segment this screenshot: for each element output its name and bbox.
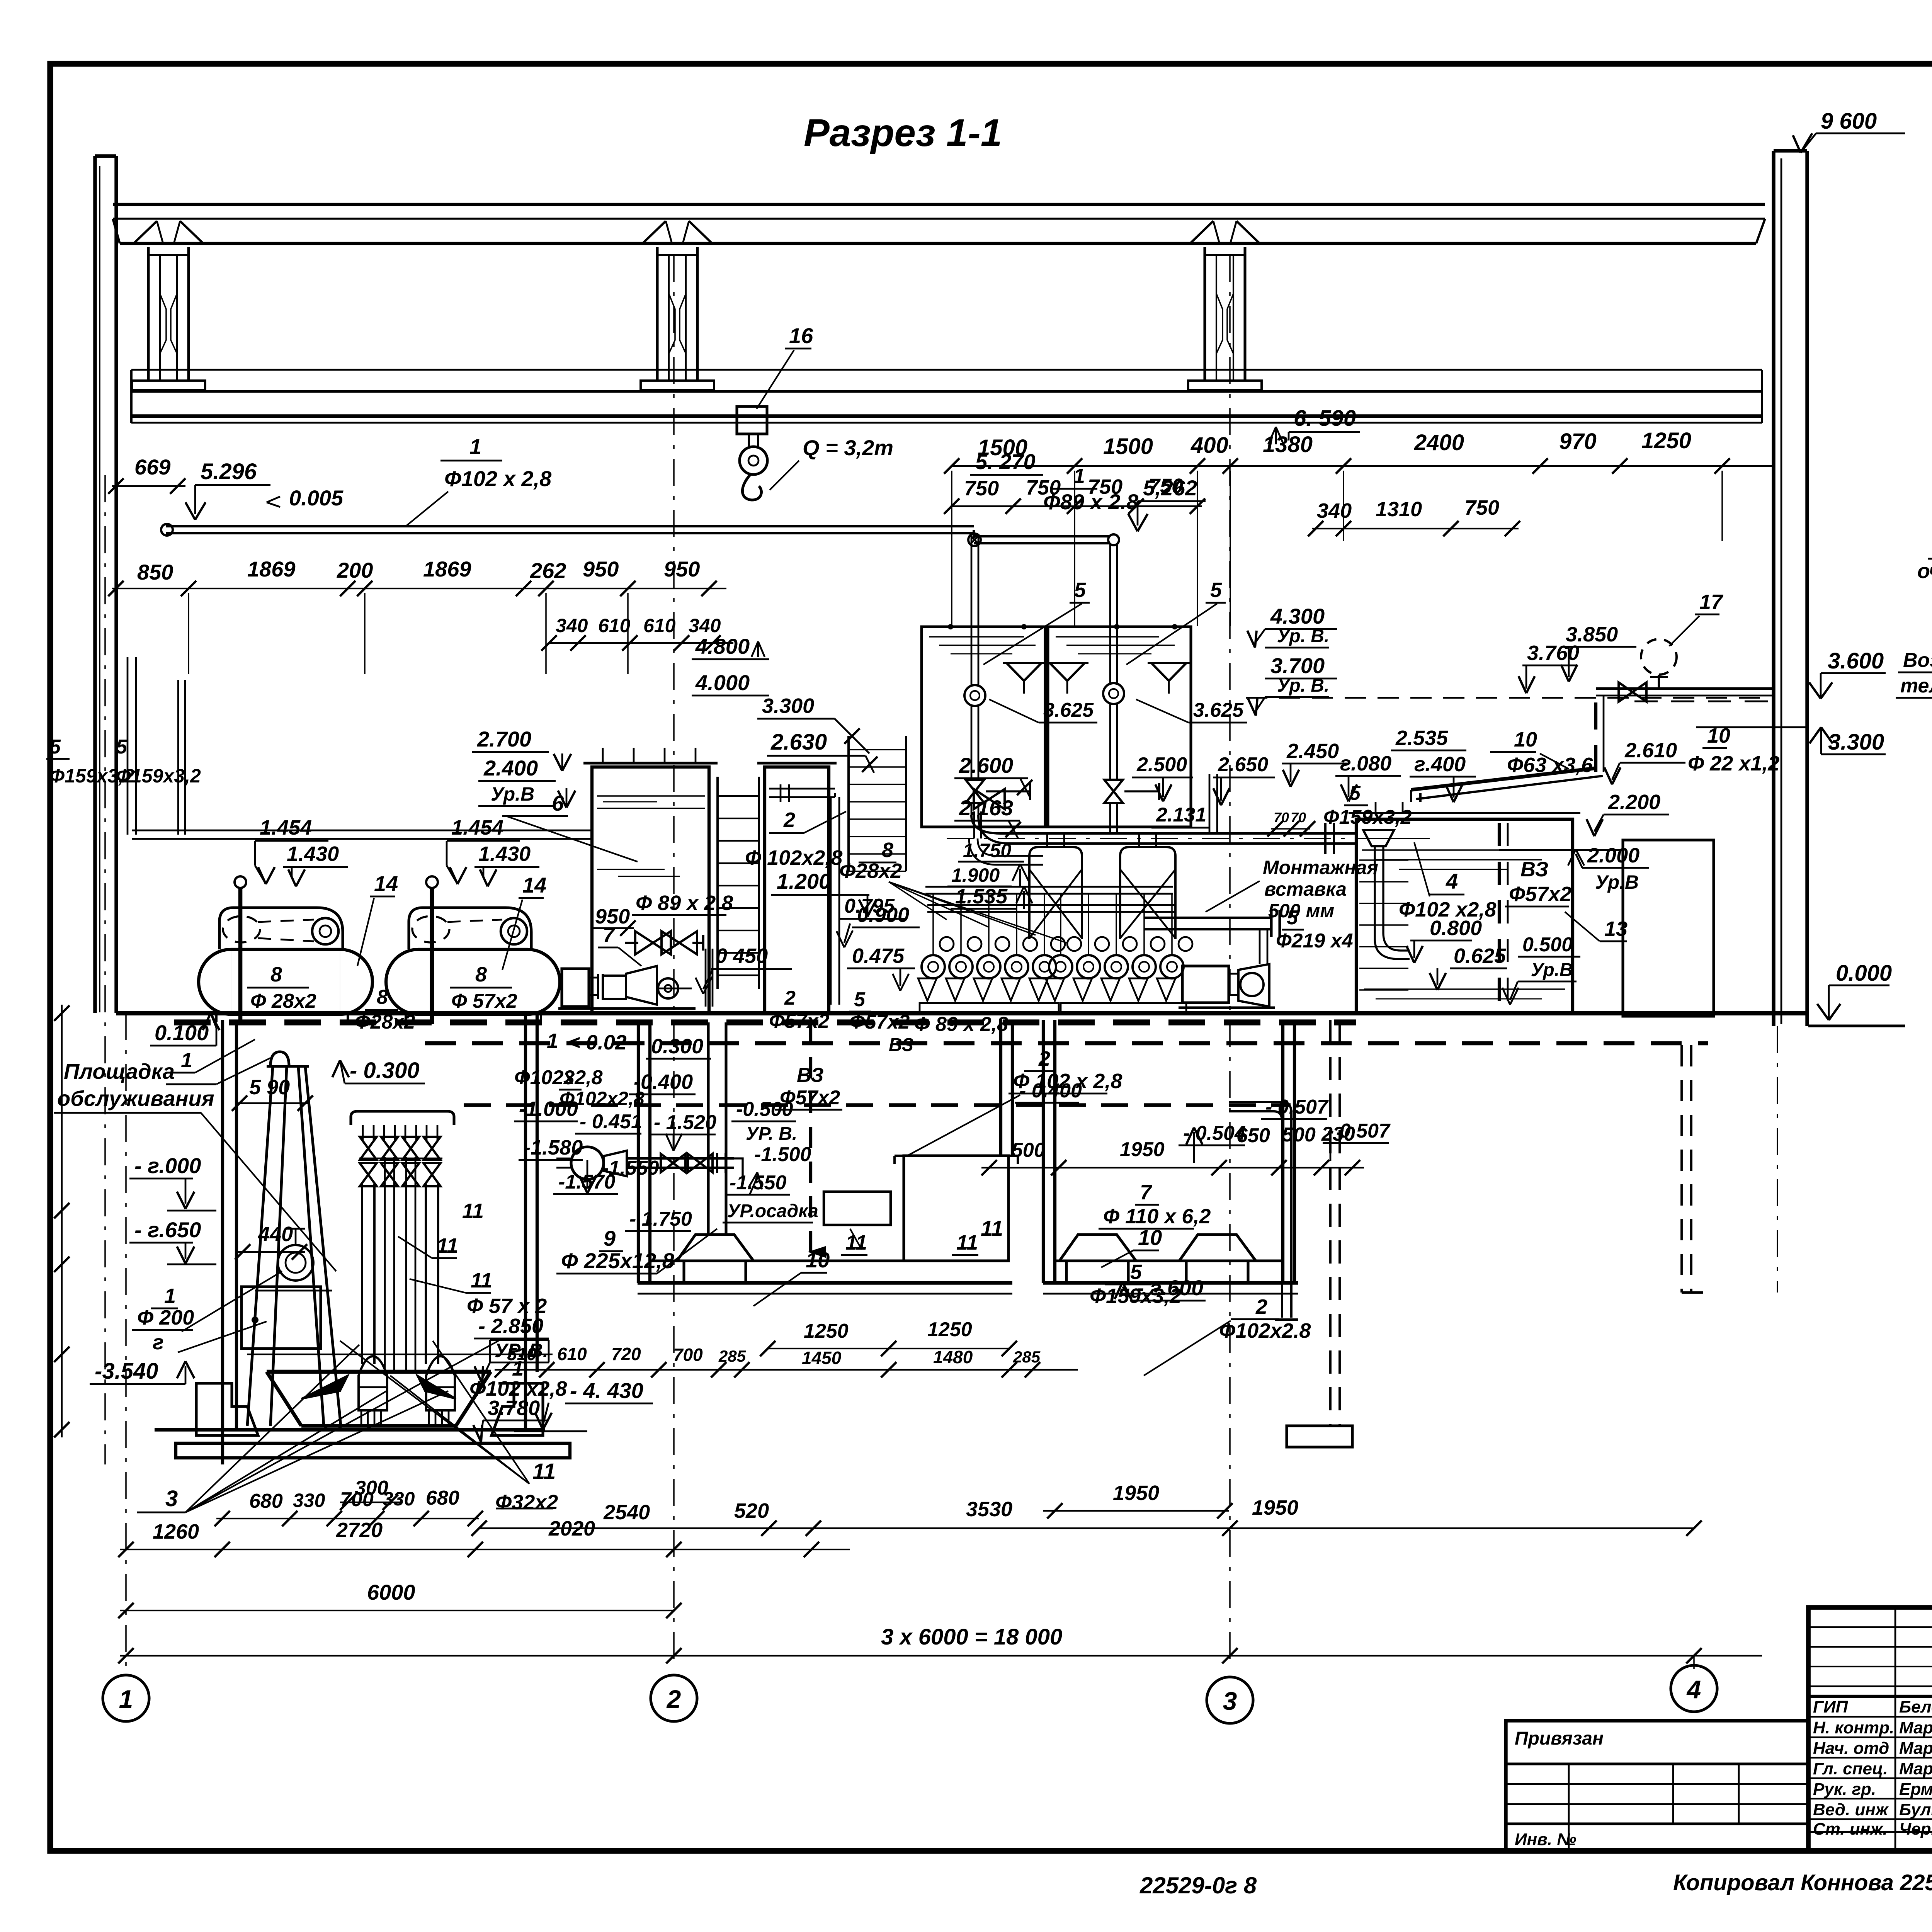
open tank A hydrocyclone bbox=[922, 627, 1045, 827]
extension lines below right dim row bbox=[951, 471, 952, 626]
svg-text:Чертков: Чертков bbox=[1899, 1820, 1932, 1838]
svg-text:285: 285 bbox=[718, 1347, 746, 1365]
svg-text:8: 8 bbox=[475, 963, 487, 986]
svg-text:1250: 1250 bbox=[804, 1320, 849, 1342]
sub dim row 340-1310-750 bbox=[1312, 528, 1519, 529]
svg-text:0.005: 0.005 bbox=[289, 486, 344, 510]
svg-text:Ур.В: Ур.В bbox=[491, 783, 534, 805]
svg-text:1250: 1250 bbox=[1641, 428, 1691, 453]
center pit walls bbox=[637, 1020, 640, 1283]
svg-text:1: 1 bbox=[469, 434, 481, 459]
svg-text:3.300: 3.300 bbox=[1828, 730, 1884, 755]
svg-text:Марионков: Марионков bbox=[1899, 1759, 1932, 1778]
elevation 3.600 bbox=[1809, 682, 1821, 699]
sludge hopper bbox=[267, 1370, 491, 1374]
grid bubble 3 bbox=[1207, 1677, 1253, 1723]
svg-text:0.300: 0.300 bbox=[651, 1035, 703, 1058]
svg-text:400: 400 bbox=[1190, 433, 1228, 458]
svg-text:Ф159х3,2: Ф159х3,2 bbox=[116, 765, 201, 787]
svg-text:2.650: 2.650 bbox=[1218, 753, 1268, 776]
floor right of column bbox=[1808, 1024, 1905, 1027]
svg-text:- 4. 430: - 4. 430 bbox=[570, 1378, 643, 1403]
ladder column left of tank A bbox=[847, 736, 850, 871]
svg-text:3.625: 3.625 bbox=[1193, 699, 1244, 721]
grid bubble 4 bbox=[1671, 1665, 1717, 1712]
svg-text:10: 10 bbox=[1514, 728, 1537, 751]
svg-text:Ф102х2,8: Ф102х2,8 bbox=[560, 1088, 645, 1109]
elevation 0.000 right bbox=[1817, 1004, 1829, 1020]
svg-text:2: 2 bbox=[783, 808, 795, 832]
svg-text:0.100: 0.100 bbox=[155, 1020, 209, 1045]
dashed drop VZ center bbox=[809, 1022, 812, 1252]
svg-text:11: 11 bbox=[437, 1234, 458, 1257]
svg-text:330: 330 bbox=[293, 1490, 325, 1511]
svg-text:2.600: 2.600 bbox=[959, 753, 1013, 777]
level dash line 3.700 bbox=[1246, 697, 1762, 699]
tank 11 box bbox=[904, 1156, 1009, 1261]
f89 distribution header bbox=[927, 904, 1175, 906]
riser 1 valve with spindle bbox=[966, 780, 984, 803]
svg-text:700: 700 bbox=[340, 1488, 374, 1511]
overflow funnels on tank tops bbox=[1007, 663, 1024, 681]
flange pairs on header bbox=[1324, 823, 1327, 854]
svg-text:ГИП: ГИП bbox=[1813, 1697, 1849, 1716]
svg-text:Ф 22 х1,2: Ф 22 х1,2 bbox=[1688, 752, 1779, 775]
svg-text:- г.000: - г.000 bbox=[134, 1153, 201, 1178]
pump in center pit bbox=[571, 1147, 604, 1179]
pipe 1 f102x2.8 overhead bbox=[166, 525, 974, 527]
svg-text:4: 4 bbox=[1686, 1675, 1701, 1704]
svg-text:Белоус: Белоус bbox=[1899, 1697, 1932, 1716]
svg-text:0 450: 0 450 bbox=[716, 944, 768, 968]
svg-text:Ф 110 х 6,2: Ф 110 х 6,2 bbox=[1103, 1205, 1211, 1228]
svg-text:1.430: 1.430 bbox=[287, 842, 339, 866]
svg-text:Ф 28х2: Ф 28х2 bbox=[250, 990, 316, 1012]
svg-text:г.400: г.400 bbox=[1414, 753, 1466, 776]
floor line 0.000 bbox=[116, 1011, 1808, 1015]
crane runway posts bbox=[147, 247, 150, 381]
dim row 500 1950 650 500 230 bbox=[981, 1167, 1364, 1168]
svg-text:4.000: 4.000 bbox=[695, 670, 750, 695]
svg-text:Ф 57 х 2: Ф 57 х 2 bbox=[467, 1294, 547, 1318]
roof slab top chords bbox=[113, 203, 1765, 206]
svg-text:Ф 57х2: Ф 57х2 bbox=[451, 990, 517, 1012]
svg-text:- г.600: - г.600 bbox=[1137, 1276, 1203, 1300]
svg-text:1.454: 1.454 bbox=[260, 816, 312, 839]
risers along wall bbox=[127, 657, 129, 835]
svg-text:230: 230 bbox=[1321, 1123, 1355, 1145]
svg-text:2: 2 bbox=[666, 1685, 681, 1713]
svg-text:950: 950 bbox=[583, 557, 619, 581]
svg-text:10: 10 bbox=[1707, 724, 1730, 747]
left pit walls bbox=[221, 1020, 224, 1464]
svg-text:850: 850 bbox=[137, 560, 173, 584]
dashed tank 13 outline bbox=[1499, 849, 1623, 851]
svg-text:3.300: 3.300 bbox=[762, 694, 814, 718]
dashed elbow bottom bbox=[1682, 1291, 1716, 1294]
svg-text:1380: 1380 bbox=[1263, 432, 1313, 457]
svg-text:1500: 1500 bbox=[1103, 434, 1153, 459]
svg-text:970: 970 bbox=[1559, 429, 1597, 454]
cylindrical tank 8a bbox=[231, 949, 340, 1014]
svg-text:11: 11 bbox=[981, 1216, 1003, 1240]
svg-text:г.080: г.080 bbox=[1340, 752, 1391, 775]
svg-text:500: 500 bbox=[1012, 1139, 1045, 1162]
svg-text:3.700: 3.700 bbox=[1270, 653, 1325, 678]
svg-text:Мартынов: Мартынов bbox=[1899, 1739, 1932, 1758]
svg-text:610: 610 bbox=[598, 615, 631, 636]
svg-text:Ур.В: Ур.В bbox=[1531, 960, 1573, 980]
hydrocyclone bank 2 bbox=[1049, 955, 1072, 978]
svg-text:750: 750 bbox=[1148, 474, 1183, 498]
svg-text:Вед. инж: Вед. инж bbox=[1813, 1800, 1889, 1819]
svg-text:- 0.507: - 0.507 bbox=[1265, 1096, 1329, 1118]
right column bbox=[1772, 151, 1775, 1026]
svg-text:285: 285 bbox=[1013, 1348, 1041, 1366]
grid bubble 2 bbox=[651, 1675, 697, 1721]
tank 6 flotator bbox=[592, 767, 709, 1013]
svg-text:очищаемой воды: очищаемой воды bbox=[1917, 560, 1932, 583]
svg-text:-1.500: -1.500 bbox=[754, 1143, 811, 1166]
svg-text:11: 11 bbox=[471, 1269, 492, 1292]
svg-text:Н. контр.: Н. контр. bbox=[1813, 1718, 1894, 1737]
svg-text:0.475: 0.475 bbox=[852, 944, 905, 968]
open tank B hydrocyclone bbox=[1048, 627, 1191, 827]
svg-text:720: 720 bbox=[611, 1344, 641, 1364]
svg-text:200: 200 bbox=[337, 558, 373, 582]
grid bubble 1 bbox=[103, 1675, 149, 1721]
svg-text:Площадка: Площадка bbox=[64, 1059, 175, 1083]
svg-text:обслуживания: обслуживания bbox=[57, 1086, 214, 1111]
riser 1 elbow to header bbox=[971, 815, 1001, 833]
svg-text:Ф 89 х 2,8: Ф 89 х 2,8 bbox=[914, 1013, 1008, 1036]
cylindrical tank 8b bbox=[386, 949, 560, 1014]
svg-text:6: 6 bbox=[552, 791, 564, 815]
conveyor housing 8b bbox=[409, 908, 531, 949]
svg-text:750: 750 bbox=[1088, 475, 1122, 498]
svg-text:950: 950 bbox=[664, 557, 700, 581]
svg-text:2.500: 2.500 bbox=[1136, 753, 1187, 776]
elevation 3.300 bbox=[1810, 727, 1821, 743]
svg-text:1950: 1950 bbox=[1113, 1481, 1159, 1505]
svg-text:2400: 2400 bbox=[1414, 430, 1464, 455]
pit bottom slab bbox=[155, 1428, 545, 1431]
hook pipe under floor bbox=[1229, 1101, 1282, 1103]
svg-text:УР. В.: УР. В. bbox=[746, 1124, 797, 1144]
left wall column bbox=[93, 156, 97, 1013]
svg-text:Ермакова: Ермакова bbox=[1899, 1780, 1932, 1799]
svg-text:3.625: 3.625 bbox=[1043, 699, 1094, 721]
svg-text:< 0.02: < 0.02 bbox=[568, 1031, 627, 1054]
dim row 510 610 720 700 285 1450 1480 285 bbox=[495, 1369, 1078, 1371]
svg-text:Ст. инж.: Ст. инж. bbox=[1813, 1820, 1888, 1838]
right pit footings bbox=[1060, 1235, 1136, 1261]
header pipe f159 horizontal bbox=[1001, 832, 1357, 835]
svg-text:2.200: 2.200 bbox=[1608, 791, 1660, 814]
long drop pipes bbox=[361, 1184, 363, 1364]
svg-text:3 х 6000 = 18 000: 3 х 6000 = 18 000 bbox=[881, 1624, 1062, 1650]
svg-text:0.000: 0.000 bbox=[1836, 961, 1892, 986]
svg-text:Q = 3,2т: Q = 3,2т bbox=[803, 435, 893, 460]
dim 3x6000 bbox=[120, 1655, 1762, 1656]
svg-text:Воздухораспредели-: Воздухораспредели- bbox=[1903, 649, 1932, 672]
svg-text:14: 14 bbox=[522, 873, 546, 897]
sub dim row 340-610 bbox=[549, 642, 733, 644]
svg-text:Разрез 1-1: Разрез 1-1 bbox=[804, 111, 1002, 155]
pump 2 unit bbox=[1182, 966, 1229, 1003]
svg-text:Рук. гр.: Рук. гр. bbox=[1813, 1780, 1876, 1799]
svg-text:5.296: 5.296 bbox=[201, 459, 257, 484]
wall axis dash-dot bbox=[104, 475, 106, 1464]
svg-text:Ф102х2,8: Ф102х2,8 bbox=[514, 1066, 603, 1089]
elevation 9.600 bbox=[1816, 133, 1905, 134]
svg-text:440: 440 bbox=[258, 1223, 293, 1246]
svg-text:УР.осадка: УР.осадка bbox=[727, 1201, 818, 1221]
svg-text:1480: 1480 bbox=[933, 1347, 973, 1367]
dim 669 bbox=[112, 485, 185, 487]
svg-text:1260: 1260 bbox=[153, 1520, 199, 1543]
dim 1950 mid bbox=[1043, 1510, 1229, 1512]
svg-text:Ф159х3,2: Ф159х3,2 bbox=[1323, 806, 1412, 828]
privyazan block bbox=[1506, 1721, 1808, 1851]
svg-text:750: 750 bbox=[1464, 496, 1499, 519]
svg-text:-0.500: -0.500 bbox=[736, 1098, 793, 1121]
svg-text:0.625: 0.625 bbox=[1454, 944, 1506, 968]
personnel table bbox=[1808, 1695, 1932, 1698]
svg-text:2540: 2540 bbox=[603, 1501, 650, 1524]
svg-text:Ур. В.: Ур. В. bbox=[1277, 675, 1329, 696]
stand pipes with balls bbox=[235, 876, 246, 888]
svg-text:Гл. спец.: Гл. спец. bbox=[1813, 1759, 1888, 1778]
svg-text:Инв. №: Инв. № bbox=[1515, 1830, 1577, 1849]
svg-text:5: 5 bbox=[116, 736, 128, 758]
svg-text:Ф102 х 2,8: Ф102 х 2,8 bbox=[444, 466, 552, 491]
svg-text:340: 340 bbox=[689, 615, 721, 636]
svg-text:1950: 1950 bbox=[1252, 1496, 1298, 1519]
svg-text:тельные трубы Ф 22х12: тельные трубы Ф 22х12 bbox=[1900, 675, 1932, 697]
svg-text:Ур. В.: Ур. В. bbox=[1277, 626, 1329, 646]
ladder between tanks bbox=[716, 777, 719, 989]
svg-text:8: 8 bbox=[377, 986, 388, 1009]
svg-text:17: 17 bbox=[1699, 590, 1724, 614]
svg-text:510: 510 bbox=[507, 1344, 537, 1364]
svg-text:1869: 1869 bbox=[423, 557, 471, 581]
svg-text:4.800: 4.800 bbox=[695, 634, 750, 658]
svg-text:650: 650 bbox=[1236, 1124, 1270, 1147]
vertical dim chain far left bbox=[61, 1005, 63, 1437]
pump unit front of tank 6 bbox=[562, 969, 589, 1007]
tank feet and base bbox=[215, 1014, 218, 1022]
svg-text:- 2.850: - 2.850 bbox=[478, 1315, 543, 1338]
svg-text:- 1.750: - 1.750 bbox=[629, 1208, 692, 1230]
svg-text:Ф32х2: Ф32х2 bbox=[495, 1491, 558, 1514]
riser 1 circle top bbox=[971, 536, 973, 685]
svg-text:2.535: 2.535 bbox=[1395, 726, 1448, 750]
suction header f219 bbox=[1144, 917, 1271, 919]
svg-text:Ф28х2: Ф28х2 bbox=[355, 1011, 415, 1033]
hydro elevator bells bbox=[359, 1356, 387, 1410]
svg-text:3530: 3530 bbox=[966, 1498, 1012, 1521]
roof support taper bbox=[1190, 221, 1213, 243]
svg-text:5: 5 bbox=[854, 988, 866, 1011]
svg-text:750: 750 bbox=[964, 477, 999, 500]
valve with wheel 17 bbox=[1641, 639, 1677, 675]
svg-text:5: 5 bbox=[1210, 578, 1222, 602]
svg-text:Ф 89 х 2.8: Ф 89 х 2.8 bbox=[636, 891, 733, 915]
svg-text:5: 5 bbox=[1349, 782, 1361, 804]
svg-text:- г.650: - г.650 bbox=[134, 1218, 201, 1242]
svg-text:1869: 1869 bbox=[247, 557, 296, 581]
svg-text:- 0.451: - 0.451 bbox=[580, 1111, 642, 1133]
svg-text:Ф28х2: Ф28х2 bbox=[839, 859, 902, 883]
title block outer bbox=[1808, 1607, 1932, 1851]
svg-text:16: 16 bbox=[789, 323, 813, 348]
svg-text:- 0.400: - 0.400 bbox=[1019, 1080, 1082, 1102]
dim 6000 bbox=[120, 1610, 674, 1611]
svg-text:Привязан: Привязан bbox=[1515, 1728, 1604, 1749]
svg-text:340: 340 bbox=[1317, 499, 1352, 522]
svg-text:10: 10 bbox=[806, 1248, 830, 1272]
svg-text:610: 610 bbox=[557, 1344, 587, 1364]
svg-text:330: 330 bbox=[383, 1488, 415, 1510]
tank 4 bbox=[1356, 819, 1573, 1013]
manifold valves bbox=[360, 1137, 377, 1160]
svg-text:8: 8 bbox=[882, 838, 893, 862]
svg-text:Марионков: Марионков bbox=[1899, 1718, 1932, 1737]
svg-text:2.400: 2.400 bbox=[483, 756, 538, 780]
circle valve f200 bbox=[278, 1245, 313, 1281]
svg-text:2.610: 2.610 bbox=[1624, 739, 1677, 762]
svg-text:500: 500 bbox=[1282, 1124, 1316, 1146]
sub dim row 750s bbox=[951, 505, 1202, 507]
svg-text:2720: 2720 bbox=[336, 1519, 383, 1542]
svg-text:г: г bbox=[153, 1331, 164, 1354]
svg-text:700: 700 bbox=[673, 1345, 703, 1365]
extension lines below dim row bbox=[188, 593, 189, 674]
svg-text:520: 520 bbox=[734, 1499, 769, 1522]
svg-text:669: 669 bbox=[134, 455, 170, 479]
svg-text:Ф 102х2,8: Ф 102х2,8 bbox=[745, 846, 842, 869]
svg-text:Ф 200: Ф 200 bbox=[137, 1306, 194, 1329]
center pit floor and slab bbox=[650, 1259, 1009, 1262]
riser 2 valve with spindle bbox=[1104, 780, 1123, 803]
dashed vertical pipe right of tank13 bbox=[1680, 1045, 1683, 1293]
svg-text:3: 3 bbox=[165, 1486, 178, 1511]
dim row left y1523 bbox=[112, 588, 726, 589]
tank 2 bbox=[765, 767, 829, 1013]
svg-text:6000: 6000 bbox=[367, 1580, 415, 1604]
svg-text:610: 610 bbox=[643, 615, 676, 636]
svg-text:5: 5 bbox=[1074, 578, 1086, 602]
rail pad bbox=[132, 381, 205, 390]
svg-text:2.630: 2.630 bbox=[770, 730, 827, 755]
svg-text:Копировал Коннова 22529-02: Копировал Коннова 22529-02 8 bbox=[1673, 1870, 1932, 1895]
pipe 1 drop to feed bbox=[973, 530, 975, 538]
dim row 680 330 700 330 680 bbox=[216, 1518, 479, 1519]
svg-text:1: 1 bbox=[181, 1049, 192, 1072]
water hatch tank 6 bbox=[597, 869, 665, 870]
tank 11 small rect bbox=[824, 1192, 891, 1225]
svg-text:22529-0г 8: 22529-0г 8 bbox=[1139, 1872, 1257, 1898]
svg-text:8: 8 bbox=[270, 963, 282, 986]
svg-text:5: 5 bbox=[49, 736, 61, 758]
conveyor housing 8a bbox=[219, 908, 343, 949]
svg-text:2: 2 bbox=[1255, 1295, 1267, 1318]
svg-text:9 600: 9 600 bbox=[1821, 109, 1877, 134]
svg-text:1: 1 bbox=[164, 1284, 176, 1308]
svg-text:10: 10 bbox=[1138, 1225, 1162, 1250]
box tank left pit bbox=[241, 1287, 321, 1349]
svg-text:Ф57х2: Ф57х2 bbox=[769, 1010, 829, 1032]
svg-text:Ф57х2: Ф57х2 bbox=[1509, 883, 1571, 906]
svg-text:-3.540: -3.540 bbox=[95, 1359, 158, 1384]
svg-text:Ф63 х3,6: Ф63 х3,6 bbox=[1507, 753, 1593, 777]
svg-text:2.131: 2.131 bbox=[1156, 804, 1206, 826]
svg-text:-1.570: -1.570 bbox=[558, 1171, 616, 1193]
svg-text:680: 680 bbox=[249, 1490, 283, 1512]
svg-text:Ф57х2: Ф57х2 bbox=[849, 1011, 910, 1033]
right structure box 13 bbox=[1623, 840, 1714, 1016]
svg-text:3: 3 bbox=[1223, 1687, 1237, 1715]
svg-text:2.700: 2.700 bbox=[477, 727, 531, 751]
svg-text:0.900: 0.900 bbox=[857, 903, 909, 927]
svg-text:1: 1 bbox=[547, 1029, 558, 1053]
svg-text:7: 7 bbox=[603, 923, 616, 947]
svg-text:1500: 1500 bbox=[978, 435, 1027, 460]
svg-text:500 мм: 500 мм bbox=[1268, 900, 1334, 922]
tank4 ladder rungs bbox=[1359, 838, 1408, 839]
svg-text:0.500: 0.500 bbox=[1522, 934, 1573, 956]
svg-text:2: 2 bbox=[784, 987, 796, 1009]
svg-text:4.300: 4.300 bbox=[1270, 604, 1325, 628]
svg-text:7: 7 bbox=[1140, 1181, 1153, 1204]
rail pad bbox=[641, 381, 714, 390]
service platform A-frame bbox=[247, 1066, 273, 1426]
riser drop from valve group bbox=[705, 949, 707, 1007]
bolt dots on tank top bbox=[948, 624, 953, 629]
svg-text:11: 11 bbox=[845, 1231, 867, 1254]
dim row right y1206 bbox=[951, 465, 1774, 467]
svg-text:11: 11 bbox=[532, 1459, 556, 1484]
manifold header bbox=[351, 1111, 454, 1125]
pump casing pipe f225 bbox=[707, 1022, 709, 1235]
discharge pipe to tank2 bbox=[830, 797, 832, 1005]
svg-text:вставка: вставка bbox=[1264, 878, 1347, 900]
svg-text:Ур.В: Ур.В bbox=[1595, 871, 1639, 893]
svg-text:ВЗ: ВЗ bbox=[889, 1035, 913, 1055]
svg-text:3.760: 3.760 bbox=[1527, 641, 1579, 665]
hydrocyclone bank 1 bbox=[922, 955, 945, 978]
svg-text:750: 750 bbox=[1026, 476, 1061, 499]
dashed drop to sump bbox=[1329, 1020, 1332, 1426]
crane girder bbox=[131, 369, 1762, 371]
grid axis lines bbox=[125, 1013, 127, 1669]
svg-text:1310: 1310 bbox=[1376, 498, 1422, 521]
svg-text:1.900: 1.900 bbox=[951, 864, 1000, 886]
svg-text:1450: 1450 bbox=[802, 1348, 842, 1368]
svg-text:0.800: 0.800 bbox=[1430, 917, 1482, 940]
dim row 1260 2720 2020 bbox=[120, 1549, 850, 1550]
buried pipe heavy dashes bbox=[174, 1019, 1356, 1025]
dashed VZ pipe through tank4 bbox=[1498, 823, 1501, 1010]
pipe f63 diagonal run bbox=[1410, 790, 1412, 802]
svg-text:2.450: 2.450 bbox=[1286, 740, 1339, 763]
svg-text:11: 11 bbox=[956, 1231, 978, 1254]
svg-text:14: 14 bbox=[374, 871, 398, 896]
distribution boxes under tanks bbox=[1029, 847, 1082, 939]
svg-text:1.200: 1.200 bbox=[777, 869, 831, 893]
cyclone risers to manifold bbox=[925, 886, 1173, 888]
